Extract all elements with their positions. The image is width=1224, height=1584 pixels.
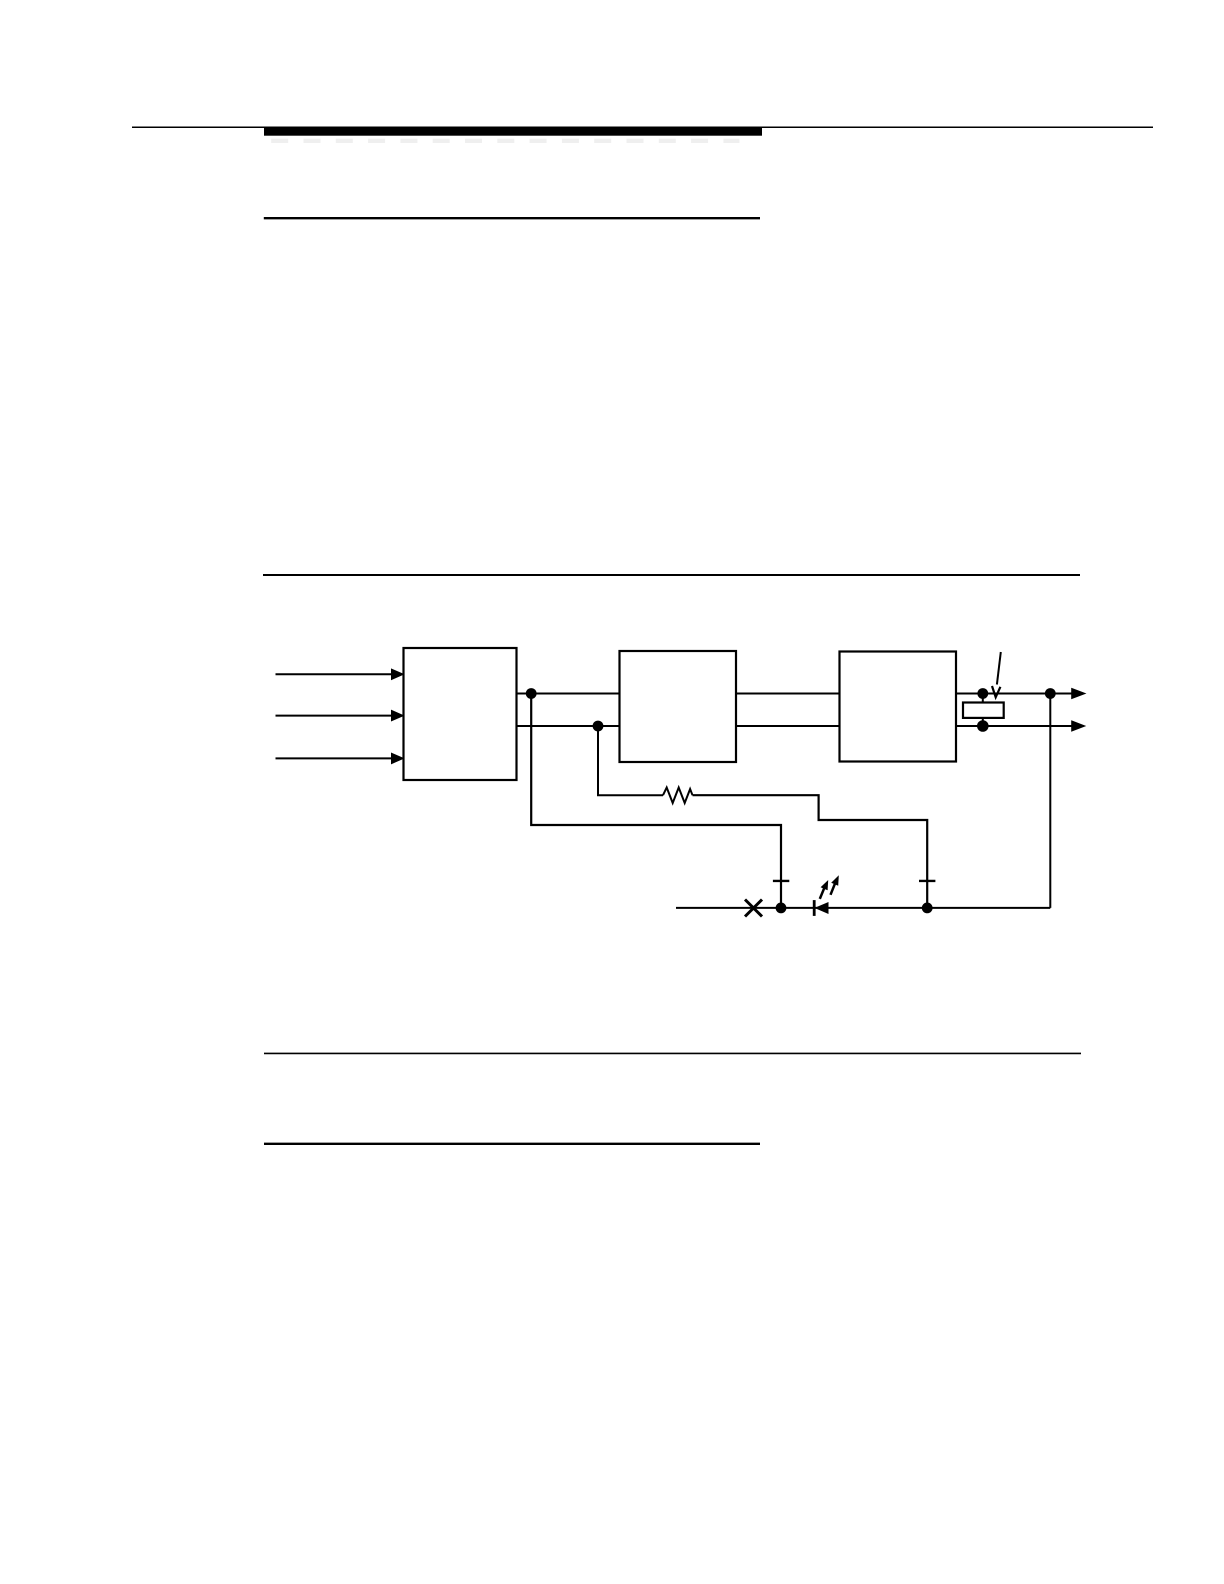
hidden title text dashes <box>271 139 739 143</box>
wire U2 to U3 upper <box>736 693 840 695</box>
strap W1 <box>963 703 1004 718</box>
input wire 2 <box>276 715 392 717</box>
wire U2 to U3 lower <box>736 725 840 727</box>
capacitor tick left <box>773 880 789 882</box>
output arrowhead upper <box>1072 689 1084 698</box>
LED D1 cathode bar <box>813 900 816 916</box>
input arrowhead 2 <box>392 711 403 720</box>
resistor R1 <box>663 788 693 804</box>
output wire lower <box>956 725 1072 727</box>
header title bar <box>264 127 762 135</box>
header rule <box>132 126 1153 128</box>
wire U1 to U2 upper <box>517 693 620 695</box>
block U3 <box>840 652 957 762</box>
bottom bus wire <box>676 907 1050 909</box>
block U1 <box>404 648 517 780</box>
strap pointer arrow <box>992 652 1001 697</box>
input arrowhead 3 <box>392 754 403 763</box>
capacitor tick right <box>919 880 935 882</box>
feedback wire right vertical <box>1049 694 1051 908</box>
footer rule <box>264 1143 760 1145</box>
strap stub upper <box>982 694 984 703</box>
strap stub lower <box>982 718 984 726</box>
input arrowhead 1 <box>392 670 403 679</box>
wire resistor to step <box>693 795 928 908</box>
LED emission arrow 1 <box>820 880 828 899</box>
junction dot C <box>977 688 988 699</box>
section rule lower <box>264 1052 1081 1054</box>
wire U1 to U2 lower <box>517 725 620 727</box>
section rule upper <box>263 574 1080 576</box>
junction dot D <box>977 720 989 732</box>
crossing X mark <box>745 900 762 917</box>
LED D1 triangle <box>816 903 828 913</box>
input wire 3 <box>276 757 392 759</box>
block U2 <box>620 651 737 762</box>
junction dot F <box>776 903 787 914</box>
junction dot E <box>1045 688 1056 699</box>
output arrowhead lower <box>1072 721 1084 730</box>
subheading rule <box>264 217 760 219</box>
junction dot A <box>526 688 537 699</box>
output wire upper <box>956 693 1072 695</box>
junction dot G <box>922 903 933 914</box>
LED emission arrow 2 <box>831 875 839 895</box>
tap wire from dot A <box>531 694 781 908</box>
input wire 1 <box>276 673 392 675</box>
junction dot B <box>593 721 604 732</box>
tap wire from dot B <box>598 726 663 795</box>
